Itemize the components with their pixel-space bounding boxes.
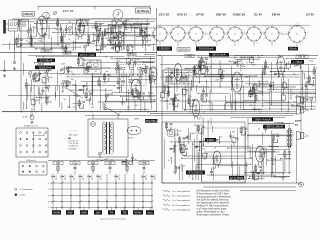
svg-text:100: 100 <box>127 107 130 109</box>
svg-text:470: 470 <box>72 74 75 76</box>
svg-text:(18mA): (18mA) <box>23 12 33 16</box>
svg-text:1n: 1n <box>233 145 235 147</box>
svg-text:10n: 10n <box>202 149 205 151</box>
svg-text:1n: 1n <box>170 69 172 71</box>
svg-text:47k: 47k <box>67 107 70 109</box>
svg-text:47k: 47k <box>177 94 180 96</box>
svg-text:50Hz: 50Hz <box>134 210 142 214</box>
svg-text:125: 125 <box>140 32 143 34</box>
svg-text:(M) = (bei): (M) = (bei) <box>69 134 78 136</box>
svg-text:0,5M: 0,5M <box>304 99 309 101</box>
svg-text:10n: 10n <box>134 89 137 91</box>
svg-text:3: 3 <box>48 195 49 197</box>
svg-text:30p: 30p <box>38 40 41 42</box>
svg-text:0,5M: 0,5M <box>72 84 77 86</box>
svg-text:0,5M: 0,5M <box>34 100 39 102</box>
svg-text:La = Taste gedrückt: La = Taste gedrückt <box>172 208 191 211</box>
svg-text:3: 3 <box>281 32 282 34</box>
svg-text:47k: 47k <box>119 47 122 49</box>
svg-text:0,5M: 0,5M <box>175 168 180 170</box>
svg-text:5n: 5n <box>208 101 210 103</box>
svg-text:5k: 5k <box>315 67 317 69</box>
svg-text:U2 6,3V 1A: U2 6,3V 1A <box>69 142 79 145</box>
svg-text:2k: 2k <box>257 165 259 167</box>
svg-text:1n: 1n <box>250 164 252 166</box>
svg-text:125: 125 <box>91 107 94 109</box>
svg-text:1k: 1k <box>57 25 59 27</box>
svg-text:220V~: 220V~ <box>128 138 135 140</box>
svg-text:5k: 5k <box>260 170 262 172</box>
svg-text:25k: 25k <box>128 82 131 84</box>
svg-text:Dr = Taste gedrückt: Dr = Taste gedrückt <box>172 199 190 202</box>
svg-text:gesehen von der Chassisseite: gesehen von der Chassisseite <box>100 218 125 221</box>
svg-text:Änderungen vorbehalten. Graetz: Änderungen vorbehalten. Graetz. <box>197 214 231 217</box>
svg-text:5n: 5n <box>135 105 137 107</box>
svg-text:100: 100 <box>49 102 52 104</box>
svg-text:0,5M: 0,5M <box>61 63 66 65</box>
svg-text:30V/0,6mA: 30V/0,6mA <box>199 47 214 51</box>
svg-text:3: 3 <box>169 32 170 34</box>
svg-text:5k: 5k <box>221 136 223 138</box>
svg-text:5n: 5n <box>173 104 175 106</box>
svg-text:125: 125 <box>27 37 30 39</box>
svg-text:1M: 1M <box>111 94 114 96</box>
svg-text:EM 80: EM 80 <box>298 55 306 59</box>
svg-text:von ±15% ist zulässig. Messung: von ±15% ist zulässig. Messung <box>197 199 230 202</box>
svg-text:5k: 5k <box>197 167 199 169</box>
svg-text:Sk Abstimm. Sk: Sk Abstimm. Sk <box>24 125 38 128</box>
svg-text:geben. Widerstände in Ohm.: geben. Widerstände in Ohm. <box>197 211 226 214</box>
svg-text:3: 3 <box>226 32 227 34</box>
svg-text:EF 89: EF 89 <box>196 13 204 17</box>
svg-text:EBF 89: EBF 89 <box>216 13 226 17</box>
svg-text:3: 3 <box>244 32 245 34</box>
svg-text:ECC 85: ECC 85 <box>63 9 74 13</box>
svg-text:0,1µ: 0,1µ <box>72 161 78 165</box>
svg-text:100: 100 <box>312 86 315 88</box>
svg-text:5k: 5k <box>168 160 170 162</box>
svg-text:E280: E280 <box>134 119 140 121</box>
svg-text:1M: 1M <box>80 57 83 59</box>
svg-text:5: 5 <box>48 207 49 209</box>
svg-text:0,5M: 0,5M <box>175 134 180 136</box>
svg-text:240V/35mA: 240V/35mA <box>144 119 159 123</box>
svg-text:4: 4 <box>48 201 49 203</box>
svg-text:(EM 84): (EM 84) <box>179 47 189 51</box>
svg-text:spannung gemessen. Abweichung: spannung gemessen. Abweichung <box>197 196 232 199</box>
svg-text:TB: TB <box>123 210 127 214</box>
svg-text:LW: LW <box>96 210 100 214</box>
svg-text:470: 470 <box>306 78 309 80</box>
svg-text:1k: 1k <box>136 22 138 24</box>
svg-text:100: 100 <box>145 66 148 68</box>
svg-text:47k: 47k <box>285 88 288 90</box>
svg-text:4Ω/5W: 4Ω/5W <box>295 120 301 123</box>
svg-text:0,1: 0,1 <box>64 37 67 39</box>
svg-text:5V 1A: 5V 1A <box>22 116 28 119</box>
svg-text:1k: 1k <box>246 63 248 65</box>
svg-text:30p: 30p <box>114 28 117 30</box>
svg-text:0,5M: 0,5M <box>214 79 219 81</box>
svg-text:0,1: 0,1 <box>111 57 114 59</box>
svg-text:1kΩ: 1kΩ <box>91 161 96 165</box>
svg-text:5k: 5k <box>68 39 70 41</box>
svg-text:= Trennpunkt: = Trennpunkt <box>20 188 33 191</box>
svg-text:der Spannungen ohne Signal bei: der Spannungen ohne Signal bei <box>197 202 230 205</box>
svg-text:0,5M: 0,5M <box>102 46 107 48</box>
svg-text:125: 125 <box>252 64 255 66</box>
svg-text:KW: KW <box>68 210 73 214</box>
svg-text:EZ 80: EZ 80 <box>306 13 314 17</box>
svg-text:(0,75mA): (0,75mA) <box>137 9 149 13</box>
svg-text:5n: 5n <box>200 125 202 127</box>
svg-text:25k: 25k <box>45 88 48 90</box>
svg-text:1k: 1k <box>71 71 73 73</box>
svg-text:1: 1 <box>48 183 49 185</box>
svg-text:10n: 10n <box>36 72 39 74</box>
svg-text:1n: 1n <box>63 99 65 101</box>
svg-text:30p: 30p <box>281 177 284 179</box>
svg-text:5k: 5k <box>214 148 216 150</box>
svg-text:5k: 5k <box>73 107 75 109</box>
svg-text:25k: 25k <box>68 82 71 84</box>
svg-text:ECH 81: ECH 81 <box>177 13 187 17</box>
svg-text:470k: 470k <box>141 161 147 165</box>
svg-text:25k: 25k <box>187 70 190 72</box>
svg-text:EABC 80: EABC 80 <box>233 13 245 17</box>
svg-text:EL 84: EL 84 <box>254 13 262 17</box>
svg-text:UKW: UKW <box>53 210 60 214</box>
svg-text:Si = Taste gedrückt: Si = Taste gedrückt <box>172 204 190 207</box>
svg-text:EABC: EABC <box>207 138 215 142</box>
svg-text:100: 100 <box>128 93 131 95</box>
svg-text:1n: 1n <box>175 146 177 148</box>
svg-text:25k: 25k <box>75 96 78 98</box>
svg-text:30p: 30p <box>71 79 74 81</box>
svg-text:125: 125 <box>272 124 275 126</box>
svg-text:= Niet: = Niet <box>20 194 26 197</box>
svg-text:1M: 1M <box>232 132 235 134</box>
svg-text:9: 9 <box>211 26 212 28</box>
svg-text:1n: 1n <box>237 139 239 141</box>
svg-text:1k: 1k <box>18 20 20 22</box>
svg-text:5k: 5k <box>118 60 120 62</box>
svg-text:1M: 1M <box>91 27 94 29</box>
svg-text:5n: 5n <box>296 61 298 63</box>
svg-text:Röhrenvoltmeter bei 220 V Netz: Röhrenvoltmeter bei 220 V Netz- <box>197 193 230 196</box>
svg-text:2: 2 <box>48 189 49 191</box>
svg-text:1M: 1M <box>291 104 294 106</box>
svg-text:2k: 2k <box>60 83 62 85</box>
svg-text:0,5M: 0,5M <box>197 86 202 88</box>
svg-text:TA: TA <box>110 210 114 214</box>
svg-text:10n: 10n <box>242 66 245 68</box>
svg-text:5k: 5k <box>206 154 208 156</box>
svg-text:220: 220 <box>211 175 214 177</box>
svg-text:98V/0,4mA: 98V/0,4mA <box>212 53 226 57</box>
svg-text:160V 4,4mA: 160V 4,4mA <box>254 117 270 121</box>
svg-text:EM 84: EM 84 <box>272 13 281 17</box>
svg-text:7: 7 <box>287 39 288 41</box>
svg-text:1n: 1n <box>76 28 78 30</box>
svg-text:— + — ∿: — + — ∿ <box>68 129 77 132</box>
svg-text:100: 100 <box>28 28 31 30</box>
svg-text:1M: 1M <box>293 74 296 76</box>
svg-text:2k: 2k <box>50 49 52 51</box>
svg-text:Ta = Taste gedrückt: Ta = Taste gedrückt <box>172 190 190 193</box>
svg-text:470: 470 <box>89 61 92 63</box>
svg-text:3: 3 <box>263 32 264 34</box>
svg-text:1k: 1k <box>89 66 91 68</box>
svg-text:3: 3 <box>187 32 188 34</box>
svg-text:100: 100 <box>263 86 266 88</box>
svg-text:47k: 47k <box>205 69 208 71</box>
svg-text:5k: 5k <box>86 89 88 91</box>
svg-text:9: 9 <box>229 26 230 28</box>
svg-text:5n: 5n <box>28 85 30 87</box>
svg-text:470: 470 <box>59 74 62 76</box>
svg-text:125: 125 <box>172 172 175 174</box>
svg-text:27Ω: 27Ω <box>187 54 192 58</box>
svg-text:62mA: 62mA <box>289 47 296 51</box>
svg-text:EF 89: EF 89 <box>128 53 135 56</box>
svg-text:Sk Bereich: Sk Bereich <box>26 160 36 162</box>
svg-text:30p: 30p <box>19 45 22 47</box>
svg-text:0,5M: 0,5M <box>309 60 314 62</box>
svg-text:0,5M: 0,5M <box>82 19 87 21</box>
svg-text:10n: 10n <box>188 75 191 77</box>
svg-text:30p: 30p <box>199 141 202 143</box>
svg-text:3: 3 <box>205 32 206 34</box>
svg-text:30p: 30p <box>102 35 105 37</box>
svg-text:2k: 2k <box>48 97 50 99</box>
svg-text:1k: 1k <box>183 165 185 167</box>
svg-text:25k: 25k <box>139 76 142 78</box>
svg-text:0,1: 0,1 <box>61 91 64 93</box>
svg-text:Ia 52mA 6: Ia 52mA 6 <box>69 147 77 150</box>
svg-text:5k: 5k <box>48 38 50 40</box>
svg-text:in µF wenn nicht anders ange-: in µF wenn nicht anders ange- <box>197 208 228 211</box>
svg-text:5: 5 <box>300 44 301 46</box>
svg-text:9: 9 <box>248 26 249 28</box>
svg-text:2M: 2M <box>108 161 112 165</box>
svg-text:5n: 5n <box>125 35 127 37</box>
svg-text:1n: 1n <box>98 26 100 28</box>
svg-text:2k: 2k <box>258 129 260 131</box>
svg-text:10n: 10n <box>32 37 35 39</box>
svg-text:5n: 5n <box>135 28 137 30</box>
svg-text:5n: 5n <box>117 37 119 39</box>
svg-text:Die Messwerte wurden mit einem: Die Messwerte wurden mit einem <box>197 190 230 193</box>
svg-text:1M: 1M <box>34 27 37 29</box>
svg-text:0,5M: 0,5M <box>165 68 170 70</box>
svg-text:5k: 5k <box>42 48 44 50</box>
svg-text:5k: 5k <box>192 144 194 146</box>
svg-text:MW: MW <box>81 210 86 214</box>
svg-text:Aus: Aus <box>147 210 153 214</box>
svg-text:3: 3 <box>307 32 308 34</box>
svg-text:1n: 1n <box>139 24 141 26</box>
svg-text:25k: 25k <box>204 157 207 159</box>
svg-text:2k: 2k <box>64 87 66 89</box>
svg-text:5n: 5n <box>105 56 107 58</box>
svg-text:47k: 47k <box>134 160 137 162</box>
svg-text:10n: 10n <box>143 27 146 29</box>
svg-text:0,5M: 0,5M <box>163 101 168 103</box>
svg-text:220: 220 <box>250 90 253 92</box>
svg-text:5k: 5k <box>209 66 211 68</box>
svg-text:30p: 30p <box>249 105 252 107</box>
svg-text:100: 100 <box>68 22 71 24</box>
svg-text:Stellung TA. Alle Kondensatore: Stellung TA. Alle Kondensatoren <box>197 205 230 208</box>
svg-text:5n: 5n <box>49 69 51 71</box>
svg-text:5n: 5n <box>208 87 210 89</box>
svg-text:5k: 5k <box>199 119 201 121</box>
svg-text:1M: 1M <box>41 20 44 22</box>
svg-text:195/92V: 195/92V <box>159 47 170 51</box>
svg-text:0,5M: 0,5M <box>95 36 100 38</box>
svg-text:ECC 85: ECC 85 <box>159 13 169 17</box>
svg-text:227/38mA: 227/38mA <box>40 58 53 62</box>
svg-text:0,5M: 0,5M <box>184 138 189 140</box>
svg-text:25k: 25k <box>56 161 61 165</box>
svg-text:125: 125 <box>103 83 106 85</box>
svg-text:25k: 25k <box>65 80 68 82</box>
svg-text:25k: 25k <box>20 19 23 21</box>
svg-text:470k: 470k <box>124 161 130 165</box>
svg-text:125: 125 <box>60 42 63 44</box>
svg-text:1n: 1n <box>88 19 90 21</box>
svg-text:1M: 1M <box>203 140 206 142</box>
svg-text:Tb = Taste gedrückt: Tb = Taste gedrückt <box>172 195 191 198</box>
svg-text:SpTy 8003: SpTy 8003 <box>230 176 244 180</box>
svg-text:220: 220 <box>201 146 204 148</box>
svg-text:220: 220 <box>194 125 197 127</box>
svg-text:25k: 25k <box>136 59 139 61</box>
svg-text:1M: 1M <box>44 72 47 74</box>
svg-text:5n: 5n <box>195 65 197 67</box>
svg-text:30p: 30p <box>245 76 248 78</box>
svg-text:9: 9 <box>172 26 173 28</box>
svg-text:9: 9 <box>190 26 191 28</box>
svg-text:25k: 25k <box>276 62 279 64</box>
svg-text:10n: 10n <box>169 104 172 106</box>
svg-text:9: 9 <box>266 26 267 28</box>
